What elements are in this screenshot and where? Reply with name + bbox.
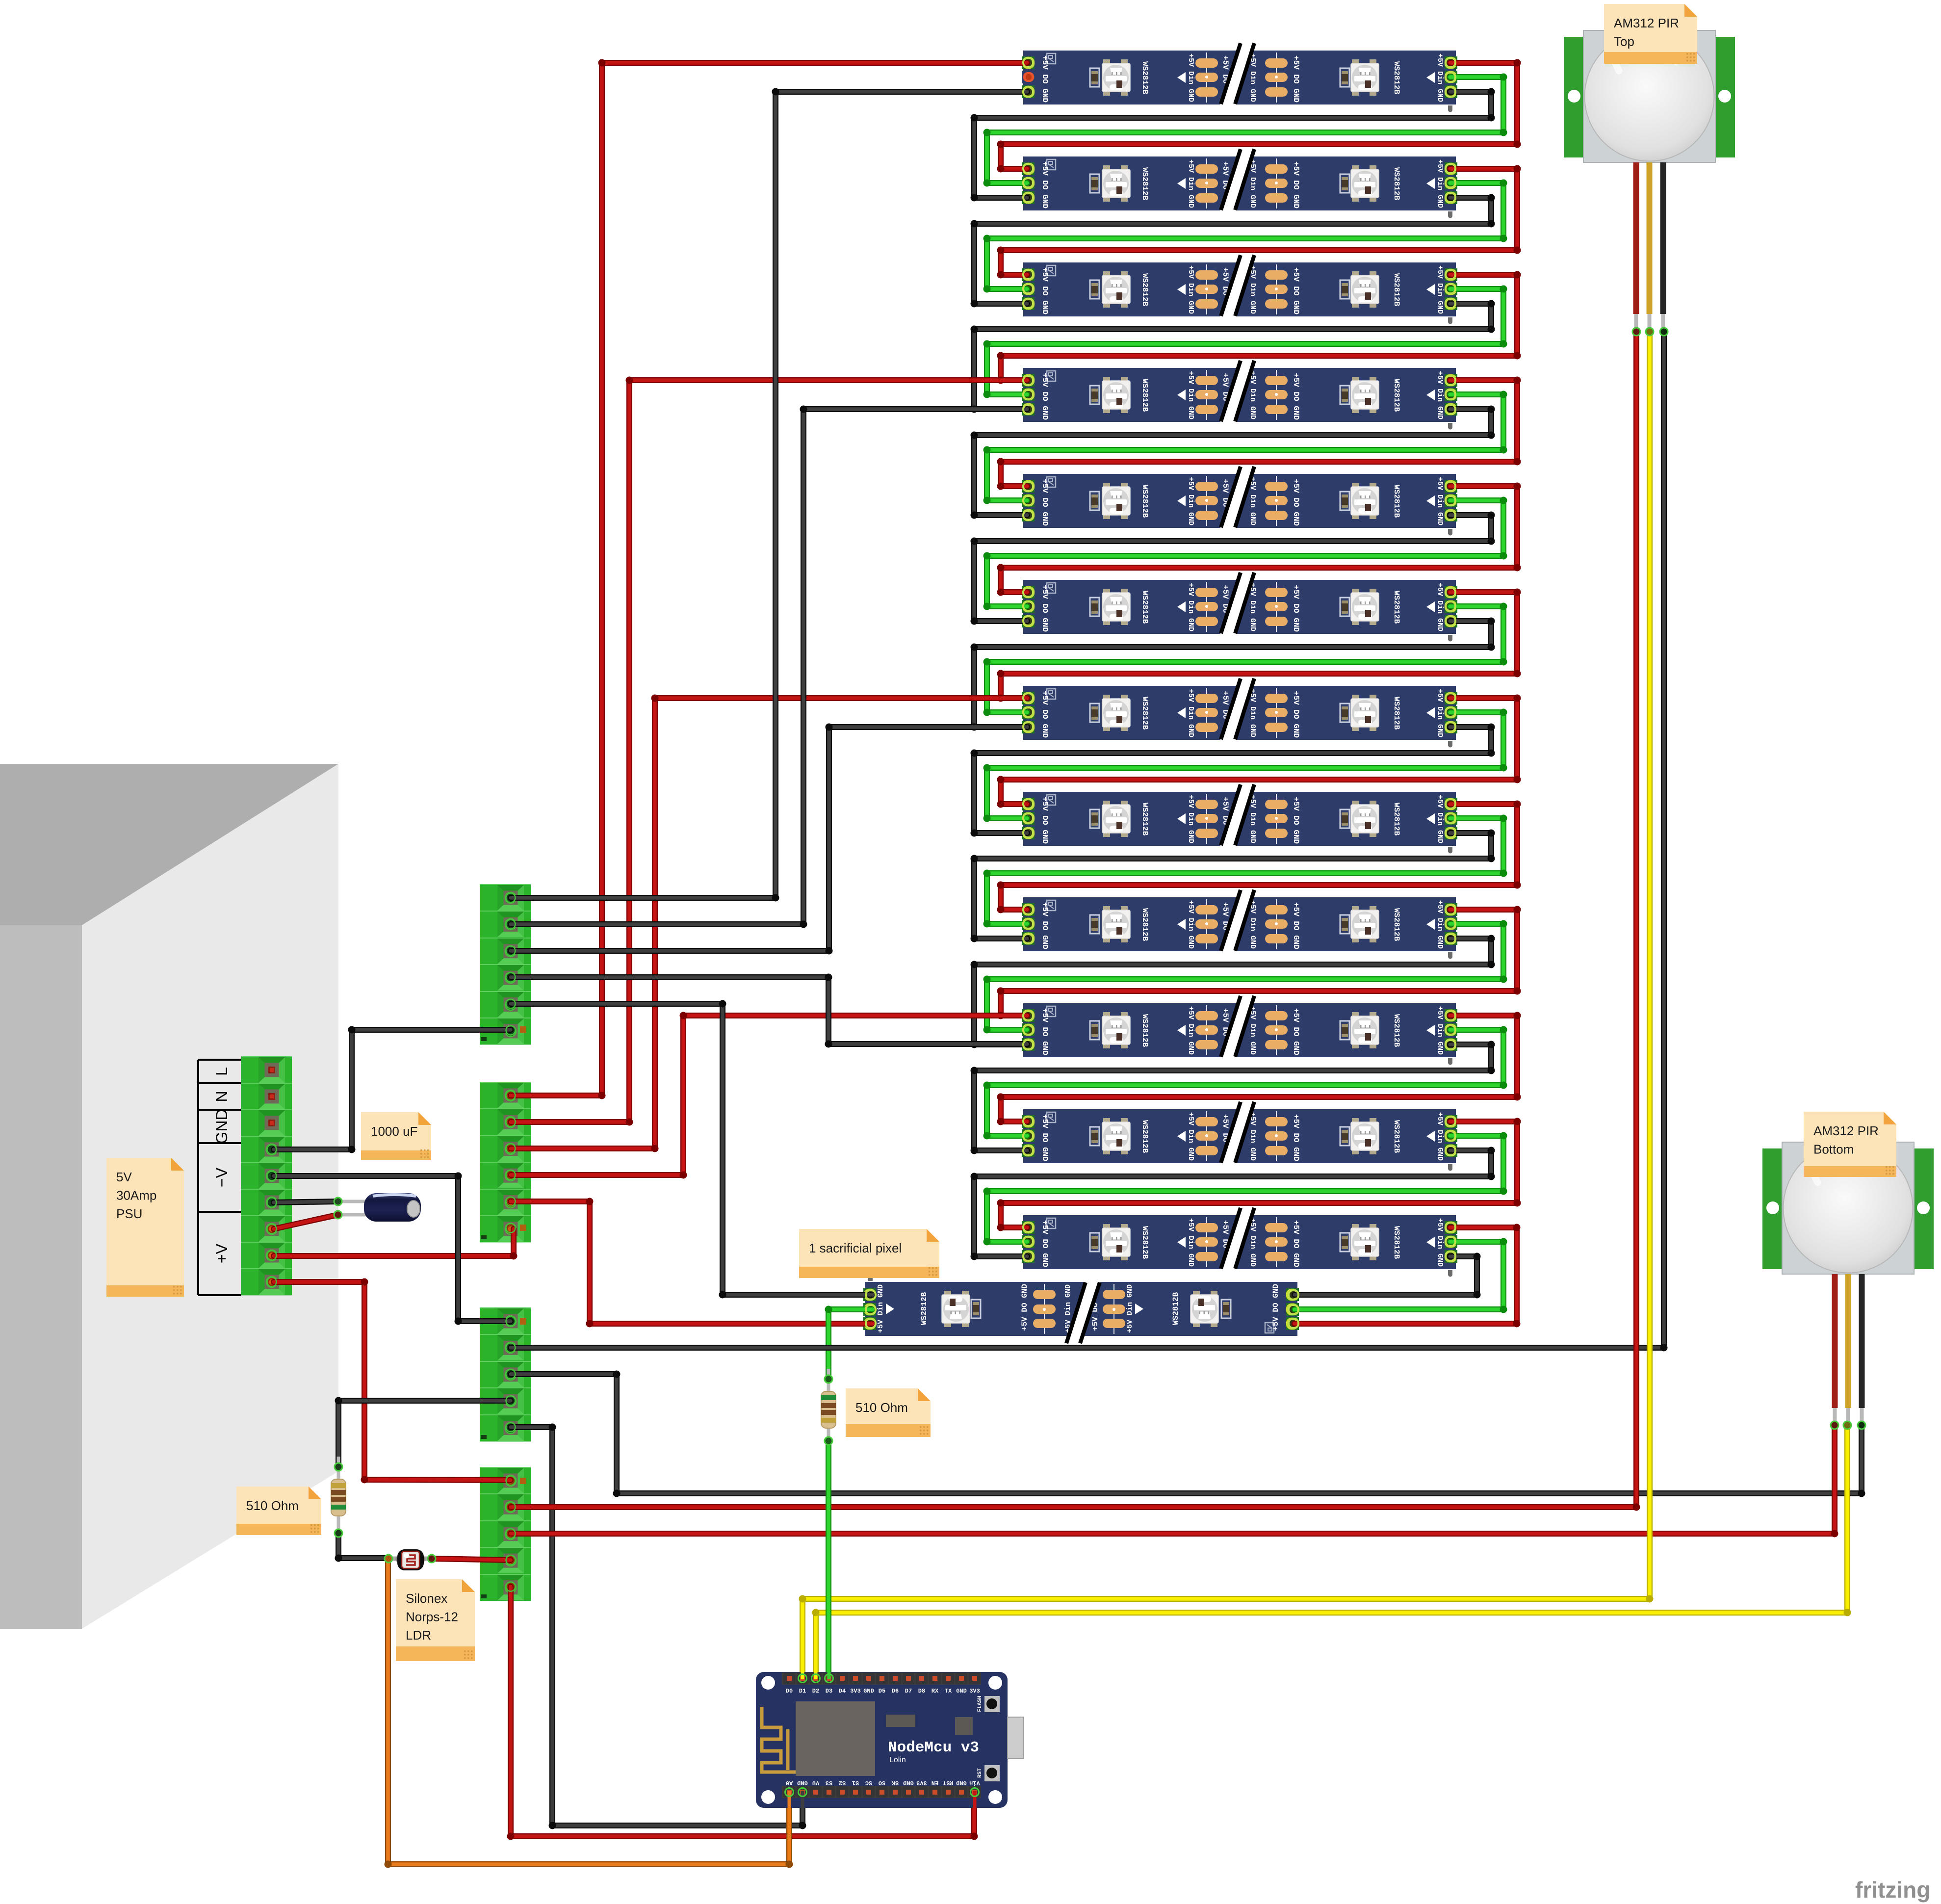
wire data link strip11 DO to strip10 Din: [983, 1026, 1507, 1140]
svg-text:3V3: 3V3: [969, 1688, 980, 1695]
svg-text:Norps-12: Norps-12: [406, 1610, 458, 1624]
wire +5V link strip10-strip11: [997, 1012, 1521, 1125]
wire +5V link strip3-strip4: [997, 271, 1521, 384]
wire +5V PSU +V to TS4-1: [274, 1278, 511, 1484]
svg-text:GND: GND: [797, 1779, 808, 1786]
terminal ring PSU-term-7: [267, 1225, 277, 1234]
terminal strip TS3 (GND dist 2) cell 1: [480, 1308, 531, 1334]
terminal strip TS1 (GND dist) cell 6: [480, 1018, 531, 1044]
LED strip 12 (WS2812B): [1022, 1207, 1457, 1277]
terminal strip TS1 (GND dist) cell 5: [480, 991, 531, 1018]
pad ring sacrificial left GND: [866, 1290, 876, 1300]
terminal ring TS2-5: [506, 1197, 516, 1206]
terminal strip TS2 (+5V dist) cell 1: [480, 1082, 531, 1109]
wire stub D2 yellow: [814, 1672, 818, 1679]
NodeMcu mounting holes: [761, 1676, 1002, 1804]
svg-text:LDR: LDR: [406, 1628, 431, 1643]
svg-text:NodeMcu v3: NodeMcu v3: [888, 1739, 979, 1756]
svg-text:D6: D6: [892, 1688, 899, 1695]
PIR bottom red dot: [1831, 1421, 1838, 1429]
pad ring strip7 left GND: [1023, 722, 1033, 731]
pad ring strip6 right Din: [1446, 601, 1455, 611]
terminal strip TS2 (+5V dist) cell 5: [480, 1189, 531, 1216]
svg-text:S2: S2: [839, 1779, 846, 1786]
pad ring strip1 right Din: [1446, 73, 1455, 82]
pad ring strip3 right Din: [1446, 284, 1455, 293]
capacitor C1 1000uF leads: [340, 1201, 373, 1215]
terminal ring TS3-2: [506, 1343, 516, 1353]
wire data link strip3 DO to strip2 Din: [983, 180, 1507, 293]
LED strip 11 (WS2812B): [1022, 1101, 1457, 1171]
svg-text:SK: SK: [891, 1779, 899, 1786]
wire +5V feed TS2-1 to strip1: [511, 59, 1027, 1099]
LED strip 7 (WS2812B): [1022, 678, 1457, 748]
pad ring strip10 left DO: [1023, 1025, 1033, 1035]
svg-text:D0: D0: [786, 1688, 793, 1695]
resistor R1 top dot: [825, 1375, 832, 1383]
wire +5V feed TS2-3 to strip7: [511, 695, 1027, 1152]
svg-text:D7: D7: [905, 1688, 912, 1695]
pad ring strip10 left +5V: [1023, 1011, 1033, 1020]
NodeMcu top pin header: [782, 1672, 981, 1685]
svg-text:Top: Top: [1614, 34, 1634, 49]
LED strip 9 (WS2812B): [1022, 889, 1457, 959]
PSU box top face: [0, 764, 338, 925]
pad ring strip8 left DO: [1023, 813, 1033, 823]
wire stub A0 orange: [788, 1791, 791, 1808]
pad ring strip11 right Din: [1446, 1131, 1455, 1141]
NodeMcu pin ring A0: [785, 1788, 794, 1797]
pad ring strip12 right Din: [1446, 1237, 1455, 1246]
LED strip 1 (WS2812B): [1022, 43, 1457, 112]
pad ring sacrificial left Din: [866, 1305, 876, 1314]
wire +5V link strip7-strip8: [997, 695, 1521, 808]
TS2 marker: [520, 1225, 526, 1231]
LDR left dot (A0 node): [385, 1555, 392, 1563]
svg-text:GND: GND: [956, 1688, 967, 1695]
terminal strip TS4 (+5V dist 2) cell 3: [480, 1521, 531, 1547]
pad ring strip8 right +5V: [1446, 799, 1455, 809]
wire PSU -V to capacitor minus: [274, 1201, 338, 1202]
strip1 DO pad (unconnected, orange): [1021, 1051, 1022, 1052]
wire +5V feed TS2-2 to strip4: [511, 377, 1027, 1126]
LED strip 5 (WS2812B): [1022, 466, 1457, 536]
wire data resistor R1 to sacrificial Din: [825, 1306, 873, 1380]
svg-text:GND: GND: [213, 1109, 231, 1144]
pad ring strip5 right Din: [1446, 496, 1455, 505]
NodeMcu pin ring D2: [812, 1674, 820, 1683]
TS1 marker: [520, 1026, 526, 1033]
svg-text:Vin: Vin: [969, 1779, 980, 1786]
svg-text:1000 uF: 1000 uF: [371, 1124, 417, 1139]
svg-text:RX: RX: [932, 1688, 939, 1695]
wire GND feed TS1-4 to strip10: [511, 974, 1027, 1048]
pad ring strip4 right Din: [1446, 390, 1455, 399]
wire GND feed TS1-1 to strip1: [511, 88, 1027, 902]
terminal strip TS3 (GND dist 2) cell 3: [480, 1361, 531, 1388]
svg-text:AM312 PIR: AM312 PIR: [1614, 16, 1679, 30]
terminal strip TS3 (GND dist 2) cell 4: [480, 1388, 531, 1414]
PSU bracket: [198, 1060, 241, 1295]
pad ring strip12 left DO: [1023, 1237, 1033, 1246]
wire +5V link strip4-strip5: [997, 377, 1521, 490]
pad ring strip6 left DO: [1023, 601, 1033, 611]
LED strip 13 (sacrificial pixel strip, rotated): [863, 1275, 1299, 1344]
wire +5V link strip1-strip2: [997, 59, 1521, 173]
terminal ring PSU-term-5: [267, 1172, 277, 1181]
wire PSU +V to capacitor plus: [274, 1215, 338, 1229]
note 510 Ohm (data): [846, 1388, 931, 1437]
terminal strip TS4 (+5V dist 2) cell 5: [480, 1574, 531, 1601]
PSU terminal +V(3): [241, 1269, 292, 1295]
PSU terminal +V(1): [241, 1216, 292, 1242]
svg-text:RST: RST: [977, 1768, 983, 1778]
pad ring strip4 right +5V: [1446, 376, 1455, 385]
wire GND link strip6-strip7: [971, 618, 1495, 731]
svg-text:FLASH: FLASH: [977, 1695, 983, 1712]
pad ring strip4 right GND: [1446, 405, 1455, 414]
pad ring strip7 right +5V: [1446, 693, 1455, 703]
NodeMcu pin ring Vin: [971, 1788, 979, 1797]
PIR bottom black dot: [1858, 1421, 1865, 1429]
wire GND link strip8-strip9: [971, 830, 1495, 942]
pad ring strip2 right +5V: [1446, 164, 1455, 173]
wire GND link strip2-strip3: [971, 194, 1495, 308]
svg-text:EN: EN: [932, 1779, 938, 1786]
TS4 marker: [520, 1478, 526, 1484]
capacitor C1 minus lead dot: [334, 1198, 342, 1205]
PIR top black dot: [1660, 328, 1668, 336]
pad ring strip10 right Din: [1446, 1025, 1455, 1035]
svg-text:S1: S1: [852, 1779, 859, 1786]
terminal strip TS2 (+5V dist) cell 4: [480, 1162, 531, 1189]
terminal strip TS4 (+5V dist 2) cell 2: [480, 1494, 531, 1520]
LED strip 4 (WS2812B): [1022, 360, 1457, 430]
svg-text:510 Ohm: 510 Ohm: [855, 1400, 908, 1415]
wire GND link strip9-strip10: [971, 935, 1495, 1048]
svg-text:SC: SC: [865, 1779, 872, 1786]
pad ring strip12 right GND: [1446, 1252, 1455, 1261]
svg-text:+V: +V: [213, 1243, 231, 1263]
NodeMcu pins and labels: [783, 1673, 981, 1798]
pad ring strip5 right +5V: [1446, 482, 1455, 491]
wire +5V TS4-4 to LDR: [434, 1559, 511, 1560]
pad ring strip3 left +5V: [1023, 270, 1033, 279]
terminal ring TS4-2: [506, 1503, 516, 1512]
terminal strip TS1 (GND dist) cell 4: [480, 965, 531, 991]
svg-text:L: L: [213, 1067, 231, 1076]
terminal ring TS4-4: [506, 1556, 516, 1565]
PSU terminal -V(3): [241, 1189, 292, 1216]
resistor R2 top dot: [335, 1463, 342, 1471]
wire GND PSU -V to TS1-6: [274, 1026, 511, 1153]
pad ring strip5 right GND: [1446, 511, 1455, 520]
wire PIR top OUT to NodeMcu D1: [799, 332, 1654, 1678]
wire +5V PSU +V to TS2-6: [274, 1229, 518, 1260]
PIR top yellow dot: [1646, 328, 1654, 336]
PSU terminal GND: [241, 1110, 292, 1136]
terminal ring PSU-term-8: [267, 1251, 277, 1260]
LED strip 3 (WS2812B): [1022, 255, 1457, 324]
terminal ring PSU-term-4: [267, 1145, 277, 1154]
resistor R2 bottom dot: [335, 1529, 342, 1537]
NodeMcu pin ring D1: [799, 1674, 807, 1683]
note 1 sacrificial pixel: [799, 1229, 939, 1278]
pad ring strip11 left +5V: [1023, 1117, 1033, 1126]
NodeMcu pin ring GND: [799, 1788, 807, 1797]
svg-text:AM312 PIR: AM312 PIR: [1813, 1123, 1879, 1138]
svg-text:D4: D4: [839, 1688, 846, 1695]
pad ring strip10 left GND: [1023, 1040, 1033, 1049]
svg-text:3V3: 3V3: [916, 1779, 927, 1786]
wire GND TS3-4 to resistor R2: [335, 1397, 511, 1467]
resistor R1 510 Ohm (data line): [821, 1369, 836, 1441]
svg-text:VU: VU: [812, 1779, 819, 1786]
svg-text:Lolin: Lolin: [889, 1756, 906, 1764]
pad ring strip9 right +5V: [1446, 905, 1455, 914]
svg-text:D1: D1: [799, 1688, 806, 1695]
svg-text:N: N: [213, 1091, 231, 1102]
terminal ring TS2-4: [506, 1171, 516, 1180]
wire LDR node to NodeMcu A0: [385, 1560, 793, 1868]
pad ring strip3 right GND: [1446, 299, 1455, 308]
capacitor C1 1000uF body: [364, 1193, 421, 1222]
NodeMcu FLASH button: [977, 1695, 1000, 1712]
pad ring strip7 left +5V: [1023, 693, 1033, 703]
wire GND TS3-2 to PIR top: [511, 332, 1668, 1352]
svg-text:5V: 5V: [116, 1170, 132, 1184]
pad ring strip6 left +5V: [1023, 588, 1033, 597]
terminal ring TS4-5: [506, 1582, 516, 1591]
NodeMcu v3 board: [756, 1672, 1008, 1808]
wire +5V link strip9-strip10: [997, 906, 1521, 1019]
terminal ring TS3-1: [506, 1317, 516, 1326]
pad ring strip8 left GND: [1023, 828, 1033, 837]
pad ring sacrificial left +5V: [866, 1319, 876, 1328]
wire GND link strip1-strip2: [971, 88, 1495, 202]
capacitor C1 plus lead dot: [334, 1211, 342, 1219]
pad ring strip7 right GND: [1446, 722, 1455, 731]
terminal ring TS1-1: [506, 893, 516, 903]
NodeMcu USB connector: [1008, 1717, 1024, 1758]
wire +5V TS4-3 to PIR bottom: [511, 1425, 1838, 1538]
terminal strip TS4 (+5V dist 2) cell 4: [480, 1547, 531, 1574]
terminal strip TS2 (+5V dist) cell 2: [480, 1109, 531, 1135]
terminal ring TS1-4: [506, 973, 516, 982]
pad ring strip11 left DO: [1023, 1131, 1033, 1141]
LED strip 10 (WS2812B): [1022, 995, 1457, 1065]
wire stub D3 green: [828, 1672, 831, 1679]
wire +5V link strip12-sacrificial: [1294, 1224, 1521, 1328]
wire +5V feed TS2-4 to strip10: [511, 1012, 1027, 1179]
wire stub D1 yellow: [801, 1672, 804, 1679]
terminal strip TS1 (GND dist) cell 1: [480, 885, 531, 911]
wire GND PSU -V(2) to TS3-1: [274, 1173, 511, 1325]
svg-text:D2: D2: [812, 1688, 819, 1695]
wire +5V TS4-2 to PIR top: [511, 332, 1640, 1511]
wire GND TS3-5 to NodeMcu GND: [511, 1424, 806, 1829]
NodeMcu ESP module: [796, 1701, 875, 1776]
pad ring sacrificial right GND: [1289, 1290, 1298, 1300]
svg-text:−V: −V: [213, 1167, 231, 1187]
terminal ring TS1-6: [506, 1026, 516, 1035]
wire data link strip4 DO to strip3 Din: [983, 286, 1507, 398]
svg-text:GND: GND: [903, 1779, 914, 1786]
terminal ring TS3-4: [506, 1396, 516, 1406]
pad ring strip9 right GND: [1446, 934, 1455, 943]
pad ring strip6 left GND: [1023, 616, 1033, 626]
terminal ring TS2-1: [506, 1091, 516, 1100]
pad ring strip1 left GND: [1023, 87, 1033, 97]
pad ring strip9 right Din: [1446, 919, 1455, 929]
resistor R2 510 Ohm (LDR divider): [331, 1457, 346, 1529]
pad ring strip9 left GND: [1023, 934, 1033, 943]
pad ring strip8 right Din: [1446, 813, 1455, 823]
terminal ring TS2-6: [506, 1224, 516, 1233]
wire GND feed TS1-3 to strip7: [511, 724, 1027, 955]
wire data link strip6 DO to strip5 Din: [983, 497, 1507, 610]
terminal strip TS3 (GND dist 2) cell 2: [480, 1334, 531, 1361]
wire GND link strip10-strip11: [971, 1041, 1495, 1154]
pad ring strip12 left +5V: [1023, 1223, 1033, 1232]
pad ring strip2 left +5V: [1023, 164, 1033, 173]
NodeMcu RST button: [977, 1765, 1000, 1781]
wire +5V link strip6-strip7: [997, 589, 1521, 702]
terminal strip TS2 (+5V dist) cell 3: [480, 1136, 531, 1162]
pad ring strip1 right GND: [1446, 87, 1455, 97]
pad ring strip6 right +5V: [1446, 588, 1455, 597]
svg-text:A0: A0: [786, 1779, 793, 1786]
svg-text:D8: D8: [918, 1688, 925, 1695]
wire GND link strip5-strip6: [971, 512, 1495, 625]
pad ring strip2 left GND: [1023, 193, 1033, 202]
pad ring strip7 left DO: [1023, 707, 1033, 717]
wire GND link strip7-strip8: [971, 724, 1495, 837]
svg-text:510 Ohm: 510 Ohm: [246, 1498, 299, 1513]
pad ring strip9 left DO: [1023, 919, 1033, 929]
pad ring strip1 right +5V: [1446, 58, 1455, 67]
terminal strip TS4 (+5V dist 2) cell 1: [480, 1467, 531, 1494]
PIR sensor AM312 bottom: [1762, 1142, 1934, 1423]
wire data NodeMcu D3 to resistor R1: [826, 1441, 831, 1678]
resistor R1 bottom dot: [825, 1437, 832, 1445]
wire +5V TS4-5 to NodeMcu Vin: [507, 1587, 978, 1840]
wire GND feed TS1-2 to strip4: [511, 406, 1027, 928]
NodeMcu bottom pin header: [782, 1786, 981, 1798]
LED strip 6 (WS2812B): [1022, 572, 1457, 642]
pad ring strip2 right Din: [1446, 178, 1455, 187]
PIR bottom yellow dot: [1843, 1421, 1851, 1429]
note 1000 uF: [361, 1112, 431, 1160]
terminal strip TS2 (+5V dist) cell 6: [480, 1216, 531, 1242]
wire data link strip8 DO to strip7 Din: [983, 709, 1507, 822]
wire GND feed TS1-5 to sacrificial strip: [511, 1000, 873, 1299]
wire +5V link strip11-strip12: [997, 1118, 1521, 1231]
pad ring strip12 right +5V: [1446, 1223, 1455, 1232]
LDR right dot (+5V node): [428, 1555, 436, 1563]
svg-text:SO: SO: [879, 1779, 885, 1786]
pad ring sacrificial right Din: [1289, 1305, 1298, 1314]
note AM312 PIR Top: [1604, 4, 1697, 64]
PSU terminal +V(2): [241, 1242, 292, 1269]
pad ring strip4 left +5V: [1023, 376, 1033, 385]
wire data link strip12 DO to strip11 Din: [983, 1132, 1507, 1246]
NodeMcu pin ring D3: [825, 1674, 833, 1683]
NodeMcu antenna: [762, 1707, 796, 1772]
svg-text:PSU: PSU: [116, 1206, 142, 1221]
svg-text:S3: S3: [826, 1779, 832, 1786]
PSU terminal L: [241, 1057, 292, 1083]
pad ring strip9 left +5V: [1023, 905, 1033, 914]
terminal ring PSU-term-9: [267, 1278, 277, 1287]
svg-text:Silonex: Silonex: [406, 1591, 447, 1606]
wire GND link strip12-sacrificial: [1294, 1253, 1481, 1299]
wire +5V link strip5-strip6: [997, 483, 1521, 596]
pad ring strip11 right +5V: [1446, 1117, 1455, 1126]
terminal ring TS1-3: [506, 946, 516, 956]
PSU terminal N: [241, 1083, 292, 1110]
note AM312 PIR Bottom: [1804, 1112, 1896, 1177]
terminal ring TS4-3: [506, 1529, 516, 1539]
terminal ring TS4-1: [506, 1476, 516, 1486]
terminal strip TS1 (GND dist) cell 3: [480, 938, 531, 965]
wire resistor R2 to LDR node: [335, 1533, 386, 1562]
pad ring sacrificial right +5V: [1289, 1319, 1298, 1328]
wire +5V feed TS2-5 to sacrificial strip: [511, 1198, 873, 1328]
note 5V 30Amp PSU: [106, 1158, 184, 1297]
svg-text:GND: GND: [956, 1779, 967, 1786]
wire GND link strip11-strip12: [971, 1147, 1495, 1260]
pad ring strip7 right Din: [1446, 707, 1455, 717]
PSU terminal -V(1): [241, 1136, 292, 1163]
svg-text:GND: GND: [863, 1688, 874, 1695]
terminal ring TS2-3: [506, 1144, 516, 1153]
wire data link strip7 DO to strip6 Din: [983, 603, 1507, 716]
wire stub GND black: [801, 1791, 804, 1808]
svg-text:D3: D3: [826, 1688, 832, 1695]
pad ring strip4 left GND: [1023, 405, 1033, 414]
LED strip 2 (WS2812B): [1022, 149, 1457, 218]
pad ring strip6 right GND: [1446, 616, 1455, 626]
PSU box left face: [0, 925, 82, 1629]
pad ring strip12 left GND: [1023, 1252, 1033, 1261]
wire data link strip9 DO to strip8 Din: [983, 815, 1507, 928]
pad ring strip4 left DO: [1023, 390, 1033, 399]
wire stub Vin red: [973, 1791, 977, 1808]
svg-text:fritzing: fritzing: [1855, 1877, 1930, 1903]
PSU terminal -V(2): [241, 1163, 292, 1189]
PIR top red dot: [1632, 328, 1640, 336]
LED strip 8 (WS2812B): [1022, 784, 1457, 854]
pad ring strip10 right GND: [1446, 1040, 1455, 1049]
terminal strip TS1 (GND dist) cell 2: [480, 911, 531, 938]
pad ring strip8 right GND: [1446, 828, 1455, 837]
pad ring strip3 right +5V: [1446, 270, 1455, 279]
wire data link strip10 DO to strip9 Din: [983, 920, 1507, 1034]
wire data link strip2 DO to strip1 Din: [983, 74, 1507, 187]
pad ring strip11 right GND: [1446, 1146, 1455, 1155]
terminal ring TS3-5: [506, 1423, 516, 1432]
wire data link sacrificial DO to strip12 Din: [1294, 1238, 1507, 1313]
PIR sensor AM312 top: [1564, 30, 1735, 330]
terminal ring PSU-term-6: [267, 1198, 277, 1207]
note 510 Ohm (LDR): [236, 1487, 321, 1535]
svg-text:1 sacrificial pixel: 1 sacrificial pixel: [809, 1241, 902, 1255]
svg-text:RST: RST: [943, 1779, 954, 1786]
pad ring strip5 left DO: [1023, 496, 1033, 505]
terminal ring TS3-3: [506, 1370, 516, 1379]
wire data link strip5 DO to strip4 Din: [983, 391, 1507, 504]
